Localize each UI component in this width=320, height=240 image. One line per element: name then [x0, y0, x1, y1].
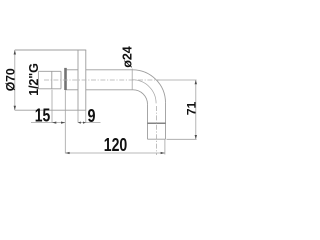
9 dimension line: [78, 122, 101, 124]
pipe bottom edge (nut to flange): [66, 89, 78, 91]
arrowhead 9 left: [78, 122, 81, 124]
thread section left shoulder: [51, 71, 53, 89]
71 dimension line: [195, 80, 197, 139]
vertical pipe right edge: [165, 103, 167, 139]
dia24 leader extension line: [131, 69, 133, 90]
svg-text:Ø70: Ø70: [4, 68, 18, 91]
arrowhead 15 left: [52, 122, 56, 124]
svg-text:1/2"G: 1/2"G: [27, 63, 41, 96]
arrowhead 120 left: [65, 152, 69, 154]
flange plate right edge: [85, 50, 87, 110]
arrowhead dia70 top: [14, 50, 16, 55]
arrowhead 71 bottom: [195, 135, 197, 139]
arrowhead 71 top: [195, 80, 197, 84]
15 dim left extension line: [51, 90, 53, 123]
9 dim right extension line: [85, 110, 87, 122]
svg-text:ø24: ø24: [120, 46, 134, 67]
vertical centerline (dash-dot): [155, 106, 157, 155]
svg-text:71: 71: [184, 102, 198, 116]
arrowhead 9 right: [83, 122, 86, 124]
wall plane extension line: [64, 90, 66, 153]
arrowhead dia70 bottom: [14, 106, 16, 111]
thread stub bottom edge: [38, 88, 61, 90]
dia70 dimension line: [14, 50, 16, 110]
vertical pipe left edge: [147, 104, 149, 139]
horizontal centerline (dash-dot): [44, 79, 160, 81]
arrowhead 120 right: [161, 152, 165, 154]
svg-text:9: 9: [88, 106, 96, 126]
svg-text:15: 15: [35, 105, 51, 125]
arrowhead 15 right: [61, 122, 65, 124]
15 dimension line: [31, 122, 65, 124]
thread stub left end cap: [37, 71, 39, 89]
wire: flange bottom edge + dia70 bottom extension line: [15, 109, 86, 111]
9 dim left extension line: [77, 110, 79, 122]
bend outer arc: [133, 70, 166, 103]
thread stub top edge: [38, 70, 61, 72]
120 right extension line: [164, 139, 166, 154]
wire: flange top edge + dia70 top extension line: [15, 49, 86, 51]
bend centerline arc: [133, 80, 157, 104]
thread section right end: [60, 71, 62, 89]
bend inner arc: [133, 90, 148, 105]
wall nut dark bar: [64, 68, 67, 90]
71 top extension line: [157, 79, 197, 81]
svg-text:120: 120: [104, 135, 128, 155]
71 bottom extension line: [167, 138, 197, 140]
pipe end bottom edge: [148, 138, 166, 140]
spout joint line: [148, 122, 166, 124]
pipe top edge (nut to flange): [66, 69, 78, 71]
flange plate left edge: [77, 50, 79, 110]
120 dimension line: [65, 152, 165, 154]
pipe bottom edge (flange to bend): [86, 89, 133, 91]
pipe top edge (flange to bend): [86, 69, 133, 71]
